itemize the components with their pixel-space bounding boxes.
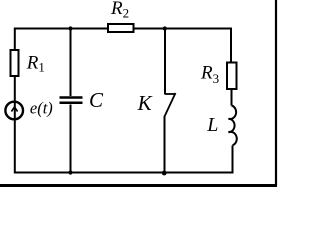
svg-text:e(t): e(t): [30, 98, 53, 117]
svg-text:L: L: [206, 114, 218, 136]
svg-text:C: C: [89, 88, 104, 112]
svg-text:K: K: [137, 91, 153, 115]
